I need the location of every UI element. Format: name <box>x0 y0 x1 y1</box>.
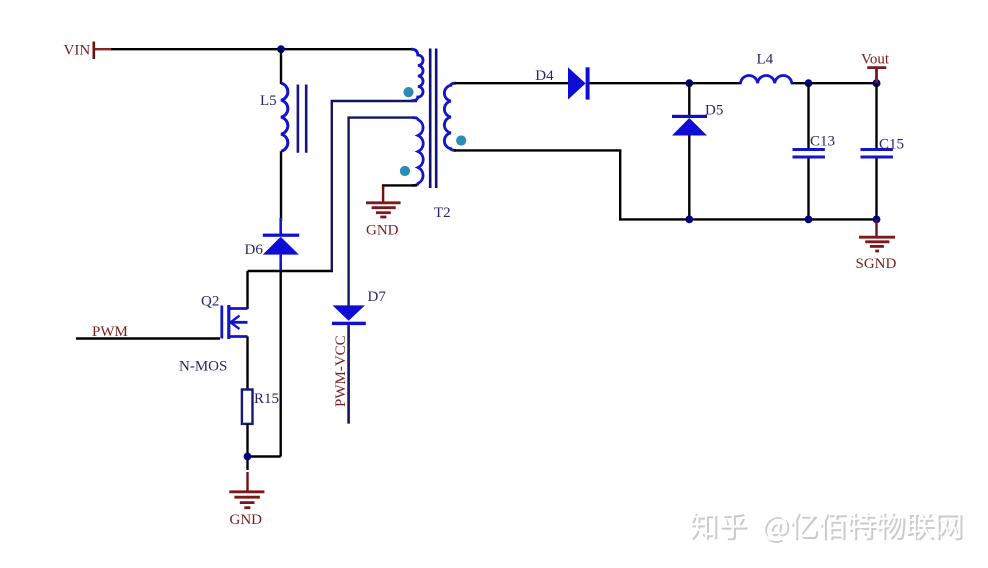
diode D5 (cathode up) <box>672 103 723 136</box>
wire D6 anode down to source node <box>280 271 282 457</box>
diode D7 (cathode down) <box>332 289 386 424</box>
transistor Q2 N-MOS <box>179 294 248 375</box>
svg-text:Vout: Vout <box>861 52 890 68</box>
diode D6 (cathode up) <box>245 218 300 272</box>
wire VIN top rail <box>111 48 413 50</box>
T2 core <box>429 49 432 189</box>
resistor R15 <box>242 390 279 424</box>
wire D5 bottom <box>688 136 690 220</box>
capacitor C15 <box>861 83 905 219</box>
port Vout <box>861 52 890 84</box>
node junction VIN/L5 <box>277 45 285 53</box>
svg-text:D4: D4 <box>535 68 554 84</box>
wire source to R15 <box>246 337 248 391</box>
svg-text:L4: L4 <box>757 52 774 68</box>
capacitor C13 <box>793 83 836 219</box>
svg-text:R15: R15 <box>254 391 279 407</box>
wire D4 to Vout rail <box>590 82 742 84</box>
wire drain vertical <box>246 271 248 309</box>
transformer T2 <box>400 49 467 222</box>
node C15/SGND bottom rail <box>873 216 881 224</box>
svg-text:L5: L5 <box>260 93 277 109</box>
T2 polarity dot secondary <box>456 135 466 145</box>
node D5 bottom rail <box>685 216 693 224</box>
T2 secondary winding <box>444 83 456 150</box>
wire L5 bottom to D6 <box>280 151 282 221</box>
svg-text:D6: D6 <box>245 242 264 258</box>
port VIN <box>64 42 113 60</box>
node Vout junction <box>873 79 881 87</box>
wire primary2 top feed to D7 <box>349 118 417 306</box>
svg-text:N-MOS: N-MOS <box>179 359 227 375</box>
T2 polarity dot primary1 <box>403 87 413 97</box>
watermark <box>690 512 963 543</box>
svg-text:GND: GND <box>366 223 399 239</box>
wire snubber riser to primary1 return <box>332 101 417 271</box>
wire primary2 bottom to GND <box>383 185 417 188</box>
wire L5 top <box>280 49 282 84</box>
wire secondary bottom return <box>454 150 877 219</box>
svg-text:GND: GND <box>230 512 263 528</box>
wire drain rail horizontal y=271 <box>248 270 334 272</box>
svg-text:VIN: VIN <box>64 43 91 59</box>
node C13 top <box>805 79 813 87</box>
svg-text:T2: T2 <box>434 205 451 221</box>
T2 primary winding 1 <box>411 49 423 101</box>
wire PWM to gate <box>76 337 220 339</box>
ground GND (transformer) <box>366 186 401 239</box>
wire D5 top <box>688 83 690 116</box>
svg-text:SGND: SGND <box>856 256 897 272</box>
wire source-node to D6 branch <box>248 455 281 457</box>
inductor L5 <box>260 83 306 153</box>
T2 polarity dot primary2 <box>400 166 410 176</box>
svg-text:C13: C13 <box>810 134 835 150</box>
inductor L4 <box>741 52 792 83</box>
ground GND (bottom) <box>229 472 264 528</box>
wire secondary top to D4 <box>454 82 569 84</box>
svg-text:D7: D7 <box>368 289 387 305</box>
wire R15 bottom to node <box>246 424 248 470</box>
diode D4 (cathode right) <box>535 67 589 99</box>
node C13 bottom rail <box>805 216 813 224</box>
ground SGND <box>856 219 897 272</box>
T2 primary winding 2 <box>412 118 423 186</box>
node R15/GND junction <box>244 453 252 461</box>
svg-text:C15: C15 <box>879 137 904 153</box>
svg-text:PWM-VCC: PWM-VCC <box>333 335 349 407</box>
svg-text:Q2: Q2 <box>201 294 219 310</box>
node D5 top <box>685 79 693 87</box>
wire L4 to Vout <box>791 82 877 84</box>
svg-text:D5: D5 <box>705 103 723 119</box>
